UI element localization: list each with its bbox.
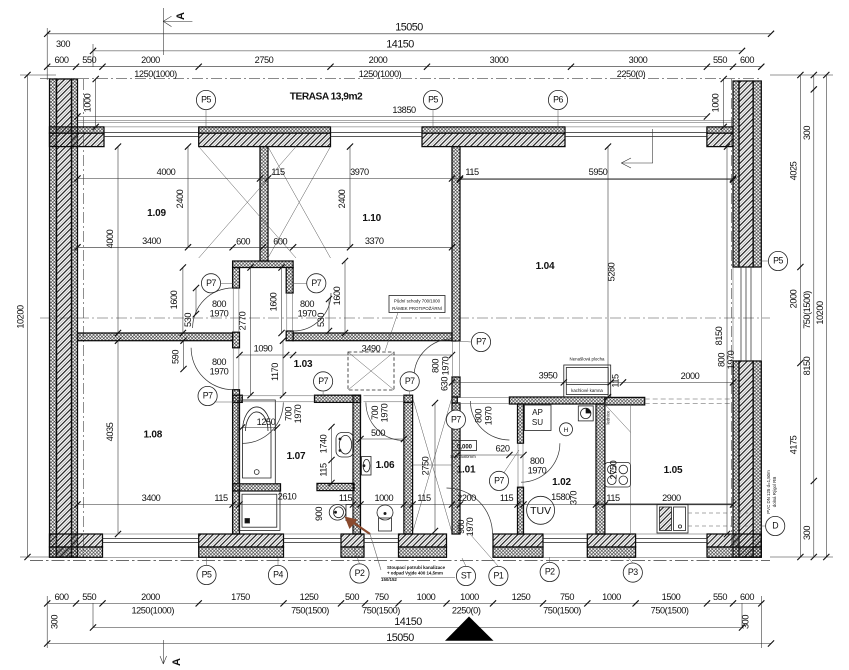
window right wall	[741, 267, 751, 361]
svg-text:+ odpad Vyjde 400 14,5mm: + odpad Vyjde 400 14,5mm	[387, 571, 443, 576]
corridor/1.08 east wall mid	[233, 332, 240, 348]
dim 1600 room 1.09	[169, 264, 186, 336]
svg-text:1970: 1970	[210, 309, 229, 319]
svg-text:750(1500): 750(1500)	[291, 606, 329, 616]
kachlova kamna tiled stove	[564, 365, 611, 397]
dim terrace 13850	[74, 105, 710, 120]
svg-text:2750: 2750	[421, 456, 431, 475]
svg-text:1250: 1250	[257, 417, 276, 427]
wall V2 divider 1.10/1.04	[452, 147, 460, 341]
svg-text:2200: 2200	[457, 493, 476, 503]
marker circle D at 775,526	[766, 516, 785, 535]
svg-text:1250(1000): 1250(1000)	[359, 69, 402, 79]
bottom wall segment 1	[50, 534, 103, 557]
terrace floor edge lines	[78, 121, 734, 123]
svg-text:A: A	[171, 658, 183, 666]
dim vertical 2400 b	[337, 144, 353, 251]
marker circle P6 at 558,100	[548, 90, 567, 109]
svg-text:P7: P7	[405, 376, 415, 386]
axis dash-dot left	[83, 79, 85, 557]
dim 1600 right	[332, 258, 348, 336]
dim connector bottom-right	[741, 596, 762, 648]
bottom wall segment 4	[399, 534, 447, 557]
wall H2 1.01/1.02 top right	[509, 397, 605, 404]
riser note text	[381, 577, 455, 579]
svg-text:13850: 13850	[392, 105, 416, 115]
svg-text:P5: P5	[428, 95, 438, 105]
svg-text:1250: 1250	[300, 592, 319, 602]
dim 530 left	[183, 285, 199, 327]
svg-text:3490: 3490	[362, 344, 381, 354]
door label 700/1970 rotated a	[284, 404, 304, 423]
door label 800/1970 rotated	[431, 356, 451, 375]
svg-text:5280: 5280	[607, 262, 617, 281]
svg-text:800: 800	[300, 299, 314, 309]
svg-text:1.05: 1.05	[664, 465, 683, 476]
bottom wall segment 2	[199, 534, 284, 557]
window top 3	[565, 133, 707, 137]
svg-text:1.03: 1.03	[294, 359, 313, 370]
dim right R2	[802, 72, 817, 560]
dim top 15050	[44, 22, 774, 37]
dim 5950 line y179.7 right	[0, 0, 1, 1]
door label 800/1970 rotated	[474, 406, 494, 425]
dim right R3 10200	[770, 72, 833, 560]
bottom wall segment 6	[587, 534, 635, 557]
svg-text:3950: 3950	[539, 371, 558, 381]
svg-text:550: 550	[82, 55, 96, 65]
dim connector top-left	[47, 28, 93, 80]
svg-text:1000: 1000	[83, 93, 93, 112]
window top 2	[331, 133, 423, 137]
dim 2750 stairs	[421, 400, 439, 534]
axis dash-dot terrace top	[40, 78, 762, 80]
door label 800/1970	[528, 456, 547, 476]
svg-text:700: 700	[284, 407, 294, 421]
svg-text:1500: 1500	[662, 592, 681, 602]
svg-text:115: 115	[339, 493, 353, 503]
svg-text:1.06: 1.06	[376, 460, 395, 471]
svg-text:4000: 4000	[105, 229, 115, 248]
corridor right wall stub lower	[286, 331, 293, 341]
svg-text:115: 115	[271, 167, 285, 177]
svg-text:1.09: 1.09	[147, 208, 166, 219]
svg-text:1000: 1000	[711, 93, 721, 112]
svg-text:P2: P2	[545, 567, 555, 577]
svg-text:P5: P5	[773, 256, 783, 266]
svg-text:8150: 8150	[714, 326, 724, 345]
dim top segments row	[44, 55, 764, 79]
svg-text:600: 600	[740, 55, 754, 65]
wall H2 east of stairs	[404, 395, 413, 402]
washbasin 1.07	[336, 433, 354, 458]
wall H1 left (1.09/1.08)	[78, 333, 233, 341]
svg-text:1580: 1580	[551, 492, 570, 502]
wall face lines across top windows	[104, 126, 707, 128]
door arc 1.10	[293, 293, 331, 331]
dim D5 row y504.5	[74, 491, 736, 508]
svg-text:500: 500	[371, 428, 385, 438]
boiler with black quadrant	[578, 406, 593, 421]
svg-text:2400: 2400	[337, 189, 347, 208]
dim bottom 15050	[44, 632, 774, 647]
dim D2 row y247.3	[74, 236, 455, 250]
dim vertical 2400 a	[175, 144, 191, 251]
section marker A bottom	[160, 640, 183, 666]
svg-text:dolná Rýgol RB: dolná Rýgol RB	[772, 477, 777, 508]
dim left 10200	[16, 72, 57, 560]
dim bottom segments row	[44, 592, 764, 616]
svg-text:1250: 1250	[512, 592, 531, 602]
wall V 1.07/1.06	[353, 395, 361, 534]
svg-text:530: 530	[183, 313, 193, 327]
door label 800/1970	[298, 299, 317, 319]
svg-text:1970: 1970	[465, 517, 475, 536]
dim D7 row y382.4	[440, 371, 737, 391]
svg-text:600: 600	[55, 592, 69, 602]
svg-text:300: 300	[50, 615, 60, 629]
dim 900 1970 door P1	[456, 517, 475, 536]
svg-text:2000: 2000	[369, 55, 388, 65]
svg-text:2750: 2750	[255, 55, 274, 65]
door threshold lines corridor right	[287, 293, 293, 331]
dim vertical 4035 room 1.08	[105, 338, 121, 538]
hand basin 1.06	[362, 457, 372, 476]
wall V3 kitchen/1.02	[596, 404, 605, 534]
svg-text:150/152: 150/152	[381, 577, 397, 582]
svg-text:1600: 1600	[332, 286, 342, 305]
dim bottom 14150	[90, 616, 745, 631]
wall face lines across right window	[733, 267, 761, 361]
svg-text:1740: 1740	[319, 434, 329, 453]
svg-text:1.01: 1.01	[457, 465, 476, 476]
svg-text:AP: AP	[532, 408, 543, 417]
level mark 0,000	[453, 441, 477, 451]
window bottom 5	[636, 539, 707, 543]
svg-text:750(1500): 750(1500)	[802, 291, 812, 329]
svg-text:370: 370	[569, 491, 579, 505]
marker circle P1 at 498,576	[489, 566, 508, 585]
svg-text:550: 550	[82, 592, 96, 602]
svg-text:530: 530	[316, 313, 326, 327]
svg-text:Nenašlová plocha: Nenašlová plocha	[570, 357, 605, 362]
svg-text:8150: 8150	[802, 356, 812, 375]
dim D1 row y178.5	[74, 167, 736, 182]
chimney dashed square with X	[348, 352, 394, 390]
svg-text:Půdní schody 700/1000: Půdní schody 700/1000	[394, 299, 441, 304]
marker leader lines	[206, 110, 768, 567]
svg-text:P7: P7	[311, 278, 321, 288]
svg-text:PVC DN 125 d=1,50m: PVC DN 125 d=1,50m	[766, 470, 771, 514]
dim 5950 y179.7	[457, 177, 736, 183]
svg-text:800: 800	[530, 456, 544, 466]
exterior wall left	[50, 79, 78, 557]
svg-text:115: 115	[465, 167, 479, 177]
door threshold lines 1.04 V2	[453, 341, 460, 377]
door arc 1.03 to 1.04	[414, 339, 452, 377]
svg-text:P5: P5	[202, 570, 212, 580]
svg-text:4175: 4175	[789, 435, 799, 454]
dim 1600 left	[269, 264, 285, 336]
svg-text:1000: 1000	[417, 592, 436, 602]
svg-text:750: 750	[375, 592, 389, 602]
svg-text:600: 600	[236, 237, 250, 247]
wall H2 mid (1.07/1.06 top)	[315, 395, 361, 402]
svg-text:750(1500): 750(1500)	[543, 606, 581, 616]
drain dashed lines to D	[688, 513, 760, 526]
door threshold lines 1.01	[457, 398, 509, 404]
wall H5 bath stub	[233, 484, 281, 491]
svg-text:P3: P3	[628, 567, 638, 577]
svg-text:lednice: lednice	[606, 410, 611, 424]
marker circle P3 at 632,572	[623, 563, 642, 582]
svg-text:550: 550	[713, 55, 727, 65]
door label 800/1970 rotated	[717, 350, 737, 369]
door arc 1.02	[521, 443, 560, 482]
svg-text:1750: 1750	[231, 592, 250, 602]
wall H2 west stub bath corner	[233, 395, 243, 402]
corridor/1.08 east wall lower	[233, 390, 240, 534]
svg-text:3000: 3000	[490, 55, 509, 65]
dim vertical 5280 room 1.04	[605, 144, 617, 401]
top wall segment A	[50, 127, 105, 147]
marker circle P5 at 778,261	[768, 251, 787, 270]
svg-text:Stoupací potrubí kanalizace: Stoupací potrubí kanalizace	[387, 565, 446, 570]
svg-text:1970: 1970	[441, 356, 451, 375]
TUV boiler circle	[527, 496, 555, 524]
svg-text:P7: P7	[476, 337, 486, 347]
svg-text:14150: 14150	[386, 39, 414, 51]
marker circle P7 at 207,396	[198, 386, 217, 405]
marker circle P7 at 481,342	[471, 332, 490, 351]
svg-text:10200: 10200	[815, 301, 825, 325]
toilet 1.06	[377, 505, 393, 531]
marker circle P2 at 549,572	[540, 562, 559, 581]
marker circle P4 at 278,575	[268, 565, 287, 584]
svg-text:4035: 4035	[105, 422, 115, 441]
svg-text:1.04: 1.04	[536, 261, 555, 272]
dim vertical 4000 room 1.09	[105, 144, 121, 337]
attic ladder leader	[385, 313, 398, 352]
walkway dashed line below bottom wall	[30, 560, 770, 562]
wall V stair right / 1.01 west	[452, 403, 460, 534]
svg-text:SU: SU	[532, 418, 543, 427]
svg-text:2250(0): 2250(0)	[617, 69, 646, 79]
svg-text:600: 600	[740, 592, 754, 602]
svg-text:800: 800	[474, 409, 484, 423]
svg-text:4025: 4025	[789, 161, 799, 180]
svg-text:P5: P5	[201, 95, 211, 105]
window bottom 2	[284, 539, 342, 543]
svg-text:P7: P7	[206, 278, 216, 288]
dim corridor 1170	[270, 338, 286, 399]
svg-text:2400: 2400	[175, 189, 185, 208]
door arc 1.06	[366, 402, 404, 440]
svg-text:900: 900	[314, 507, 324, 521]
marker circle P7 at 316,283	[307, 274, 326, 293]
door threshold lines 1.02	[518, 443, 523, 487]
window top 1	[104, 133, 199, 137]
svg-text:800: 800	[717, 353, 727, 367]
wall face lines across bottom windows	[103, 534, 708, 557]
svg-text:750(1500): 750(1500)	[651, 606, 689, 616]
bottom wall segment 3	[341, 534, 364, 557]
dim 1740 115 in 1.07	[319, 424, 335, 486]
wall H1 right (1.10/1.03)	[293, 333, 452, 341]
marker circle P7 at 499,480	[489, 471, 508, 490]
svg-text:1970: 1970	[210, 367, 229, 377]
dim connector bottom-left	[47, 596, 93, 648]
window bottom 3	[364, 539, 399, 543]
top wall segment C	[422, 127, 565, 147]
svg-text:5950: 5950	[589, 167, 608, 177]
svg-text:15050: 15050	[395, 22, 423, 34]
AP SU appliance box	[524, 405, 551, 431]
marker circle P7 at 455,419	[446, 410, 465, 429]
svg-text:P4: P4	[273, 570, 283, 580]
wall V6 1.01/1.02 lower	[518, 487, 524, 534]
bottom wall segment 7 corner	[707, 534, 761, 557]
window bottom 1	[103, 539, 199, 543]
corridor top cap wall	[233, 261, 294, 268]
svg-text:A: A	[175, 12, 187, 20]
svg-text:14150: 14150	[394, 616, 422, 628]
svg-text:550: 550	[713, 592, 727, 602]
svg-text:1970: 1970	[293, 404, 303, 423]
svg-text:P7: P7	[203, 391, 213, 401]
svg-text:1970: 1970	[528, 466, 547, 476]
exterior wall right lower	[733, 361, 761, 557]
attic ladder note box	[389, 296, 445, 313]
svg-text:1000: 1000	[460, 592, 479, 602]
svg-text:P7: P7	[318, 376, 328, 386]
entrance arrow	[621, 129, 653, 168]
door threshold lines corridor left	[233, 288, 239, 332]
svg-text:1.07: 1.07	[287, 451, 306, 462]
section marker A top	[163, 8, 192, 55]
red riser arrow	[345, 517, 382, 571]
svg-text:3400: 3400	[142, 493, 161, 503]
svg-text:1.08: 1.08	[143, 430, 162, 441]
exterior wall right upper	[733, 81, 761, 267]
svg-text:590: 590	[171, 350, 181, 364]
dim terrace 1000 left	[83, 76, 99, 130]
marker circle P5 at 206,575	[197, 565, 216, 584]
axis dash-dot right	[731, 79, 733, 557]
bottom wall segment 5	[493, 534, 543, 557]
svg-text:300: 300	[802, 126, 812, 140]
svg-text:300: 300	[56, 39, 70, 49]
svg-text:1000: 1000	[602, 592, 621, 602]
dim terrace 1000 right	[711, 76, 727, 130]
window bottom 4	[543, 539, 587, 543]
svg-text:1.10: 1.10	[362, 213, 381, 224]
svg-text:10200: 10200	[16, 305, 26, 329]
svg-text:800: 800	[212, 357, 226, 367]
door label 700/1970 rotated b	[370, 403, 390, 422]
svg-text:1250(1000): 1250(1000)	[131, 606, 174, 616]
dim 1250 bath	[239, 417, 280, 431]
kitchen counter edge	[629, 404, 631, 534]
marker circle P5 at 433,100	[423, 90, 442, 109]
door label 800/1970	[210, 357, 229, 377]
dim 530 right	[316, 296, 332, 334]
svg-text:1970: 1970	[380, 403, 390, 422]
svg-text:1600: 1600	[269, 292, 279, 311]
door arc 1.01	[470, 401, 509, 440]
svg-text:RÁMEK PROTIPOŽÁRNÍ: RÁMEK PROTIPOŽÁRNÍ	[392, 306, 443, 311]
svg-text:750(1500): 750(1500)	[362, 606, 400, 616]
svg-text:1090: 1090	[254, 344, 273, 354]
svg-text:3000: 3000	[629, 55, 648, 65]
svg-text:1170: 1170	[270, 363, 280, 381]
svg-text:115: 115	[606, 493, 620, 503]
wall H2 dashed continuation to right wall	[645, 399, 733, 404]
svg-text:4000: 4000	[157, 167, 176, 177]
drain note rotated at D	[766, 470, 777, 514]
svg-text:750: 750	[560, 592, 574, 602]
door arc 1.07	[242, 402, 283, 443]
wall H5b right stub 1.07	[317, 483, 354, 490]
svg-text:3370: 3370	[365, 236, 384, 246]
svg-text:115: 115	[500, 493, 514, 503]
dim corridor 2770	[238, 264, 254, 398]
svg-text:2000: 2000	[141, 55, 160, 65]
svg-text:3970: 3970	[350, 167, 369, 177]
svg-text:1970: 1970	[726, 350, 736, 369]
kitchen sink	[657, 505, 688, 534]
bathtub	[238, 400, 275, 484]
svg-text:15050: 15050	[386, 632, 414, 644]
H circle	[560, 423, 573, 436]
door threshold lines 1.07	[242, 396, 314, 402]
axis dash-dot horizontal mid	[40, 317, 770, 319]
marker circle ST at 466,576	[456, 566, 475, 585]
svg-text:700: 700	[370, 406, 380, 420]
svg-text:800: 800	[431, 359, 441, 373]
solid triangle marker bottom	[445, 617, 494, 641]
svg-text:2750: 2750	[609, 460, 619, 479]
svg-text:630: 630	[440, 377, 450, 391]
svg-text:1600: 1600	[169, 290, 179, 309]
marker circle P7 at 323,381	[314, 372, 333, 391]
svg-text:115: 115	[319, 463, 329, 477]
svg-text:600: 600	[55, 55, 69, 65]
svg-text:115: 115	[417, 493, 431, 503]
interior wall V1 divider 1.09/1.10	[260, 147, 268, 261]
wall H2 kitchen top	[605, 397, 645, 405]
top wall segment D	[707, 127, 733, 147]
door arc 1.09	[193, 288, 233, 328]
stair shaft diagonals	[413, 399, 452, 531]
svg-text:620: 620	[496, 444, 510, 454]
dim 590	[171, 338, 187, 373]
dim right R1	[789, 72, 804, 560]
wall H2 1.01 top left stub	[452, 397, 457, 403]
svg-text:P1: P1	[494, 571, 504, 581]
kitchen counter front heavy line	[596, 503, 733, 505]
door label 800/1970	[210, 299, 229, 319]
marker circle P5 at 206,100	[196, 90, 215, 109]
svg-text:600: 600	[273, 237, 287, 247]
svg-text:P7: P7	[494, 476, 504, 486]
svg-text:2900: 2900	[662, 493, 681, 503]
fridge diagonal	[601, 400, 631, 432]
dim top 14150	[90, 39, 745, 55]
svg-text:300: 300	[802, 526, 812, 540]
dim 900 toilet 1.07	[314, 507, 324, 521]
top wall segment B	[199, 127, 331, 147]
